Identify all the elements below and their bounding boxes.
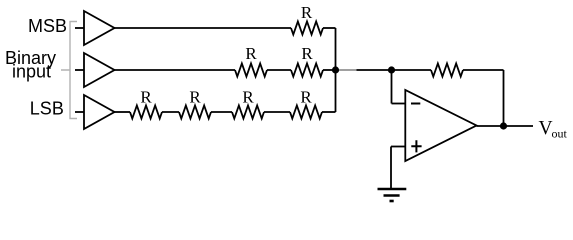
wire MSB input stub (75, 27, 84, 29)
input grouping bracket (61, 22, 77, 119)
resistor R (Binary row, first) (235, 64, 267, 77)
wire summing bus vertical (335, 28, 337, 112)
op-amp plus sign (411, 140, 421, 152)
svg-text:input: input (12, 62, 51, 82)
wire Binary resistor 2 to summing node (323, 69, 336, 71)
node label Vout (539, 118, 568, 140)
buffer U3 (LSB) (84, 95, 115, 129)
resistor R (LSB row, 1st) (130, 106, 162, 119)
resistor Rf (feedback) (431, 64, 463, 77)
svg-text:R: R (242, 88, 254, 107)
wire LSB r1-r2 (162, 111, 179, 113)
wire to op-amp noninverting input (391, 146, 405, 148)
junction dot summing node (332, 66, 339, 73)
op-amp U4 (405, 90, 476, 161)
wire MSB resistor to vertical (323, 27, 336, 29)
resistor R (LSB row, 4th) (290, 106, 322, 119)
wire LSB resistor to vertical (322, 111, 336, 113)
wire summing node to inverting branch (357, 69, 432, 71)
junction dot inverting node (388, 66, 395, 73)
wire LSB r2-r3 (211, 111, 232, 113)
op-amp minus sign (411, 103, 420, 105)
svg-text:V: V (539, 118, 553, 139)
wire Binary input stub (75, 69, 84, 71)
wire LSB row to resistor 1 (115, 111, 131, 113)
wire to op-amp inverting input (392, 103, 406, 105)
buffer U2 (Binary input) (84, 53, 115, 87)
svg-text:R: R (189, 88, 201, 107)
wire feedback vertical to output (503, 70, 505, 126)
svg-text:R: R (245, 44, 257, 63)
wire op-amp output (477, 125, 534, 127)
wire summing node to inverting branch (light segment) (336, 69, 357, 71)
svg-text:R: R (301, 3, 313, 22)
label Binary input (5, 48, 56, 81)
wire MSB row to resistor (115, 27, 292, 29)
wire LSB input stub (75, 111, 84, 113)
junction dot output node (500, 122, 507, 129)
wire Binary row to resistor 1 (115, 69, 236, 71)
wire between Binary row resistors (267, 69, 291, 71)
resistor R (LSB row, 2nd) (179, 106, 211, 119)
svg-text:LSB: LSB (30, 99, 64, 119)
resistor R (LSB row, 3rd) (232, 106, 264, 119)
svg-text:R: R (300, 88, 312, 107)
buffer U1 (MSB) (84, 11, 115, 45)
wire feedback resistor to corner (463, 69, 504, 71)
wire LSB r3-r4 (264, 111, 290, 113)
ground symbol (378, 189, 407, 201)
resistor R (MSB row) (291, 22, 323, 35)
svg-text:R: R (140, 88, 152, 107)
svg-text:R: R (301, 44, 313, 63)
wire noninverting to ground (390, 147, 392, 189)
svg-text:MSB: MSB (28, 16, 67, 36)
svg-text:out: out (552, 127, 568, 141)
resistor R (Binary row, second) (291, 64, 323, 77)
wire inverting input drop (391, 70, 393, 104)
